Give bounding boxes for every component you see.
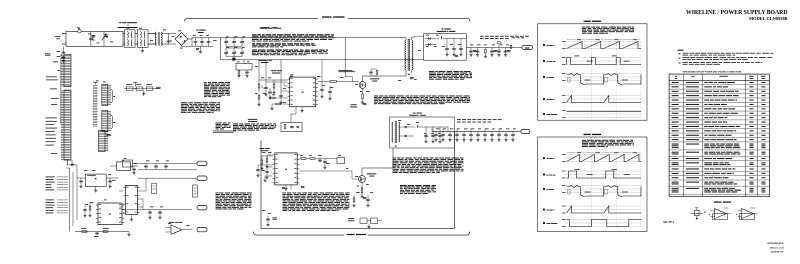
- label CONNECTED AT BOOST: [339, 70, 356, 72]
- inductor L3: [441, 37, 442, 39]
- svg-text:68P81046C86-B: 68P81046C86-B: [767, 242, 784, 245]
- wire U4 pin links: [262, 155, 273, 157]
- wire startup rail: [221, 59, 424, 61]
- label extra two-line values: [92, 35, 96, 37]
- resistor R40: [266, 158, 268, 162]
- connector P3 lower: [102, 111, 111, 132]
- resistor R11: [258, 84, 260, 88]
- wire LVD box outline: [261, 132, 454, 229]
- note paragraph main converter 3: [252, 50, 328, 56]
- resistor R45 source sense: [361, 182, 363, 188]
- note paragraph main converter 1: [252, 34, 334, 41]
- wire bottom rail: [75, 231, 129, 233]
- capacitor C37 rail bypass: [491, 48, 493, 51]
- ground Q1 source: [362, 99, 364, 102]
- capacitor C25: [320, 88, 324, 91]
- wire rail A: [133, 163, 198, 165]
- capacitor C23: [268, 91, 272, 94]
- wire Q3 drain to T2: [361, 168, 363, 176]
- label PULSE WIDTH REGULATOR: [271, 69, 282, 72]
- node waveform grid dashed verticals: [590, 155, 592, 228]
- thyristor CR10 crowbar block: [281, 123, 302, 132]
- capacitor C42: [256, 168, 260, 171]
- capacitor C51: [431, 134, 435, 137]
- terminal A: [197, 161, 207, 165]
- wire vertical bus lines: [69, 168, 71, 232]
- label chassis: [45, 54, 51, 56]
- wire U8 feeds: [138, 190, 147, 192]
- capacitor C26: [328, 90, 332, 93]
- note paragraph converter output 1: [181, 102, 220, 113]
- capacitor C82: [164, 165, 168, 168]
- ground bottom rail: [128, 232, 130, 234]
- label J2 top arrow: [94, 82, 96, 84]
- wire to bridge: [161, 33, 176, 35]
- common-mode choke L1: [125, 30, 136, 48]
- label +13.8V REFERENCE: [169, 221, 183, 224]
- node waveform U2 PIN 7: [543, 44, 545, 46]
- connector pin labels group 1: [46, 176, 69, 190]
- small box TP A: [123, 160, 133, 167]
- capacitor C3: [194, 40, 198, 43]
- label PULSE WIDTH REGULATOR LVD: [260, 147, 270, 150]
- resistor R61 bottom: [82, 231, 87, 233]
- regulator U6 box small: [117, 162, 131, 171]
- capacitor C40: [265, 170, 269, 173]
- wire startup drops to U2 parts: [258, 60, 260, 80]
- connector J1 upper edge: [61, 55, 71, 87]
- lvd output rectifier box: [389, 117, 454, 148]
- wire U2 out to gate: [318, 81, 330, 83]
- node waveform U4 PIN 5: [543, 208, 545, 210]
- note paragraph converter output 2: [216, 123, 231, 130]
- node rail top stubs: [442, 129, 444, 131]
- transistor Q1 MOSFET switch: [359, 82, 366, 89]
- wire lvd out to rail: [424, 126, 448, 128]
- resistor R16: [276, 103, 281, 105]
- label sense output text: [213, 131, 237, 133]
- wire bottom rail lvd: [255, 213, 300, 215]
- ground DC filter: [200, 46, 202, 50]
- connector P3 upper: [102, 85, 111, 106]
- wire J1 bottom stubs: [67, 160, 69, 165]
- capacitor C50: [424, 134, 428, 137]
- capacitor C80: [144, 165, 148, 168]
- wire AC input stubs: [62, 33, 66, 35]
- ground R16: [270, 107, 273, 110]
- resistor R42 small box: [337, 157, 345, 163]
- label DC OUTPUT RECTIFIER AND FILTER: [441, 29, 450, 30]
- wire 13.8V output rail: [466, 47, 522, 49]
- label LVD OUTPUT RECTIFIER AND FILTER: [413, 112, 422, 115]
- varistor RV1: [103, 31, 105, 46]
- note paragraph drive description: [374, 96, 470, 105]
- label +13.8V UNREGULATED output: [480, 35, 529, 38]
- resistor R60: [89, 206, 91, 210]
- capacitor C84: [158, 211, 162, 214]
- wire rail B: [138, 169, 197, 171]
- label J1 bracket: [61, 54, 62, 56]
- op-amp U9 unused gate B: [742, 209, 754, 219]
- terminal B: [197, 176, 207, 180]
- resistor R13: [270, 97, 275, 99]
- common-mode choke L2: [138, 30, 149, 48]
- label TRANSFORMER DRIVER: [370, 77, 379, 80]
- wire U2 pin links: [261, 85, 263, 88]
- capacitor C32: [459, 47, 463, 50]
- node waveform panel LVD CONVERTER: [584, 134, 591, 135]
- note paragraph snubber: [429, 71, 472, 80]
- node waveform Q3 DRAIN: [543, 188, 545, 190]
- svg-text:10/15/99- UP: 10/15/99- UP: [771, 252, 784, 254]
- transistor Q3 MOSFET LVD: [359, 176, 366, 183]
- node waveform U2 PIN 10: [543, 60, 545, 62]
- connector pin labels group 2: [46, 199, 69, 213]
- note NOTES list: [678, 50, 684, 51]
- note paragraph MAIN CONVERTER timing note: [582, 27, 634, 34]
- wire bus top entry: [66, 167, 70, 169]
- resistor network R1-R4 row: [124, 88, 160, 90]
- ground U2: [301, 107, 303, 110]
- op-amp U4 PWM controller LVD: [273, 153, 300, 185]
- wire J2 bus drop: [94, 84, 96, 130]
- inductor L5: [417, 125, 418, 127]
- capacitor C2 across line: [167, 40, 171, 43]
- note paragraph transient: [204, 82, 230, 97]
- node waveform OVER CURRENT: [543, 113, 545, 115]
- terminal D: [197, 227, 207, 231]
- label J1 lower pins: [46, 117, 57, 120]
- wire bridge output rails: [188, 38, 192, 40]
- capacitor C45: [366, 198, 370, 201]
- snubber network bottom: [360, 218, 367, 224]
- transformer T2: [392, 122, 393, 142]
- node waveform U4 PIN 7: [543, 157, 545, 159]
- diode CR12: [405, 126, 407, 128]
- label DC OUTPUT FILTER: [196, 30, 205, 31]
- ground line bypass: [62, 59, 65, 62]
- wire U4 bottom: [290, 185, 292, 190]
- transformer T0 isolation: [155, 32, 156, 46]
- capacitor C75: [83, 208, 87, 211]
- note paragraph LVD right: [393, 158, 464, 174]
- wire main HV rail: [192, 37, 221, 39]
- diode CR5: [428, 37, 430, 40]
- label J3: [107, 134, 112, 136]
- capacitor C4: [200, 40, 204, 43]
- svg-text:SD-TP-1: SD-TP-1: [663, 220, 675, 224]
- ground choke shield: [142, 47, 144, 49]
- ground U4: [285, 185, 287, 188]
- filter block vertical 1: [193, 185, 198, 197]
- wire U2 left pins to divider: [259, 79, 288, 81]
- capacitor C38 rail bypass: [498, 48, 500, 51]
- dc output rectifier box: [424, 34, 467, 61]
- wire rail B2: [138, 177, 197, 179]
- wire C25 rail drop: [321, 60, 323, 84]
- wire choke links: [123, 33, 125, 35]
- note paragraph overvoltage: [233, 124, 276, 131]
- wire crowbar feed: [290, 114, 292, 123]
- fuse F1: [78, 30, 81, 33]
- node output bubble: [497, 42, 501, 44]
- wire HV rail across converter: [221, 37, 407, 39]
- note paragraph LVD inside bottom: [283, 193, 350, 212]
- wire HV feed to driver: [344, 38, 346, 77]
- wire rail C: [122, 209, 192, 211]
- capacitor C72: [79, 180, 83, 183]
- node waveform U2 PIN 5: [543, 98, 545, 100]
- ic U5 supervisor: [96, 203, 124, 225]
- capacitor C31: [452, 47, 456, 50]
- wire U2 bottom feedback: [295, 107, 297, 114]
- svg-text:INTEGRATED CIRCUIT POWER AND G: INTEGRATED CIRCUIT POWER AND GROUND CONN…: [683, 70, 742, 73]
- ground C21: [264, 93, 267, 96]
- capacitor C41: [323, 160, 327, 163]
- resistor R30 rail: [485, 48, 487, 50]
- capacitor C8 junction: [134, 82, 136, 87]
- resistor R41 chain: [301, 158, 306, 160]
- node waveform Q1 DRAIN: [543, 76, 545, 78]
- note paragraph LVD right second: [400, 185, 436, 194]
- capacitor C27 snubber: [369, 71, 373, 74]
- wire 13.8V distribution rail: [432, 131, 521, 133]
- ground C22: [279, 101, 282, 104]
- capacitor C5: [207, 40, 211, 43]
- op-amp U8 unused gate A: [715, 209, 727, 219]
- op-amp U2 PWM controller: [288, 77, 318, 107]
- wire Q1 source to sense: [362, 88, 364, 94]
- capacitor C30: [445, 47, 449, 50]
- capacitor C70: [132, 168, 136, 171]
- ic U8 comparator: [123, 186, 139, 215]
- node waveform grid dashed verticals: [590, 42, 592, 119]
- transformer T1: [405, 40, 406, 70]
- resistor R14: [273, 84, 275, 88]
- node waveform panel MAIN CONVERTER: [584, 21, 591, 22]
- connector J3 small ladder: [99, 131, 108, 152]
- resistor R20 current sense: [362, 94, 364, 99]
- wire U4 to Q3 gate: [299, 170, 352, 172]
- label TRANSFORMER DRIVER LVD: [367, 172, 376, 175]
- terminal C: [197, 206, 207, 210]
- resistor R15 gate drive: [330, 81, 337, 83]
- ground R12: [257, 103, 260, 106]
- op-amp U7 reference: [171, 225, 182, 234]
- resistor R43: [261, 160, 263, 164]
- terminal distribution end: [521, 129, 530, 133]
- connector J2 pin column: [93, 85, 97, 126]
- capacitor C81: [154, 165, 158, 168]
- connector J1 lower edge: [61, 90, 71, 160]
- diode CR6: [428, 43, 430, 46]
- node waveform LVD+ VOLTAGE: [543, 222, 545, 224]
- capacitors distribution bank: [435, 132, 437, 134]
- wire left branch down: [220, 38, 222, 60]
- label UNUSED GATES: [714, 202, 722, 203]
- label AC LINE FILTERING AND TRANSIENT PROTECTION: [119, 22, 137, 23]
- capacitor C76 bottom: [95, 232, 99, 235]
- label CURRENT LIMITING: [351, 103, 357, 106]
- resistor R18 snubber: [376, 71, 378, 75]
- label component value annotations: [77, 27, 80, 30]
- transistor Q10 unused: [691, 213, 703, 215]
- resistor R50 bottom: [267, 216, 269, 219]
- node waveform U4 PIN 10: [543, 173, 545, 175]
- node AC input 120VAC 60HZ label: [55, 35, 61, 38]
- diode CR13: [405, 135, 407, 137]
- capacitor C39 rail bypass: [505, 48, 507, 51]
- wire Q1 drain to T1: [362, 76, 364, 82]
- resistor R62 bottom: [103, 231, 108, 233]
- capacitor C1: [90, 31, 92, 46]
- regulator U3 box: [85, 174, 106, 186]
- capacitor C21: [264, 86, 268, 89]
- capacitor C83: [148, 211, 152, 214]
- svg-text:(Sheet 1 of 4): (Sheet 1 of 4): [770, 246, 784, 249]
- wire T1 secondary to rectifier: [414, 35, 416, 38]
- resistor R46: [353, 198, 355, 202]
- capacitor C6 line bypass stack: [63, 47, 65, 52]
- capacitor C71: [108, 180, 112, 183]
- capacitor C35 rail bypass: [470, 48, 472, 51]
- label 5V REGULATOR: [122, 159, 124, 162]
- line filter module box: [66, 31, 123, 46]
- capacitor C36 rail bypass: [477, 48, 479, 51]
- capacitor C52: [438, 134, 442, 137]
- capacitor bank C10-C15 bulk HV: [225, 38, 227, 41]
- terminal 13.8V output: [522, 45, 533, 49]
- label CURRENT LIMITING LVD: [348, 217, 354, 220]
- label T1 5115: [261, 26, 270, 29]
- label START-UP AND LOW REGULATOR: [258, 59, 271, 62]
- note paragraph LVD left outside: [216, 193, 252, 210]
- bridge rectifier CR1 diamond: [175, 33, 188, 46]
- svg-text:MODEL CLN6959B: MODEL CLN6959B: [749, 16, 788, 21]
- label J1 pins: [53, 61, 58, 64]
- label APPROX +160 VDC: [260, 27, 282, 30]
- label MAIN CONVERTER section bracket: [185, 18, 319, 21]
- note paragraph main converter 2: [252, 43, 316, 47]
- filter block vertical 2: [152, 184, 157, 194]
- capacitor C22: [279, 94, 283, 97]
- resistor R12: [258, 95, 260, 99]
- wire output box right edge drop: [465, 39, 467, 48]
- ground resistor row: [143, 90, 145, 92]
- wire U4 left pins: [267, 154, 273, 156]
- wire U3 feeds: [77, 177, 85, 179]
- note paragraph LVD CONVERTER timing note: [582, 140, 634, 147]
- label LVD CONVERTER bracket: [254, 232, 345, 236]
- resistor R31 rail end: [510, 45, 512, 48]
- ground bulk caps: [233, 56, 235, 59]
- label 13.8V supply distribution: [457, 118, 502, 121]
- label OVERVOLTAGE PROTECTION: [248, 118, 257, 121]
- start-up regulator Q5 block: [236, 64, 252, 71]
